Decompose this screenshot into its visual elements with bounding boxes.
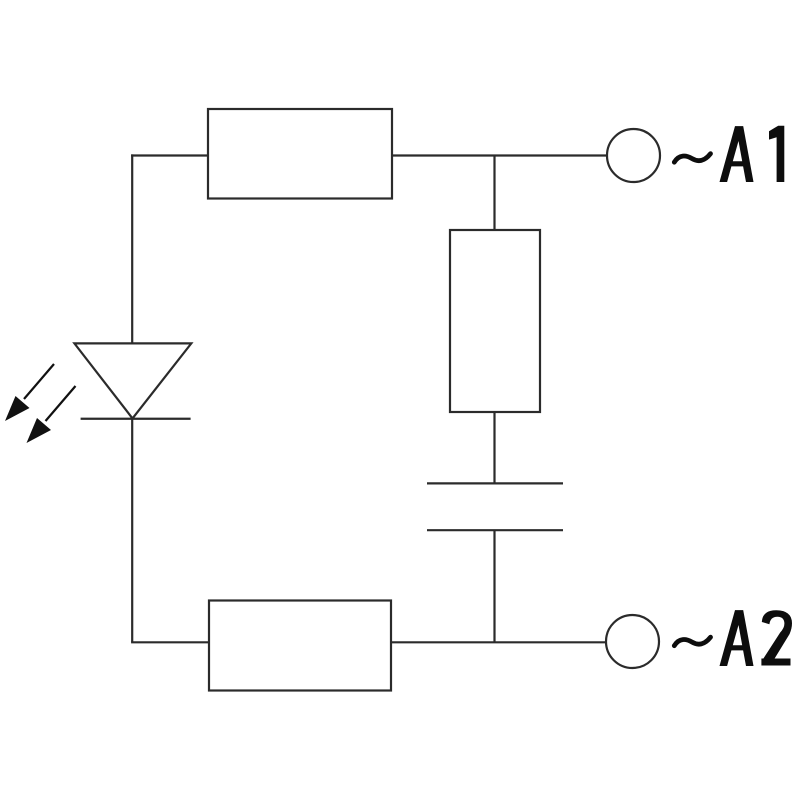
wire top-left horizontal <box>131 154 208 156</box>
wire top-right horizontal <box>392 154 607 156</box>
resistor R2 <box>450 230 540 412</box>
wire C1 down <box>493 530 495 642</box>
node junction top <box>493 156 495 231</box>
terminal A1 <box>607 129 660 182</box>
wire left vertical <box>131 154 133 344</box>
LED D1 <box>74 343 191 418</box>
LED light arrow 1 <box>5 364 54 421</box>
label ~A1 <box>674 126 784 182</box>
capacitor C1 <box>427 483 563 530</box>
resistor R3 <box>209 601 391 691</box>
wire bottom-left horizontal <box>131 641 209 643</box>
wire R2 to C1 <box>493 412 495 483</box>
terminal A2 <box>606 615 659 668</box>
resistor R1 <box>208 109 392 199</box>
label ~A2 <box>674 610 792 666</box>
wire bottom-right horizontal <box>391 641 606 643</box>
wire LED cathode down <box>131 419 133 643</box>
LED light arrow 2 <box>27 386 76 443</box>
